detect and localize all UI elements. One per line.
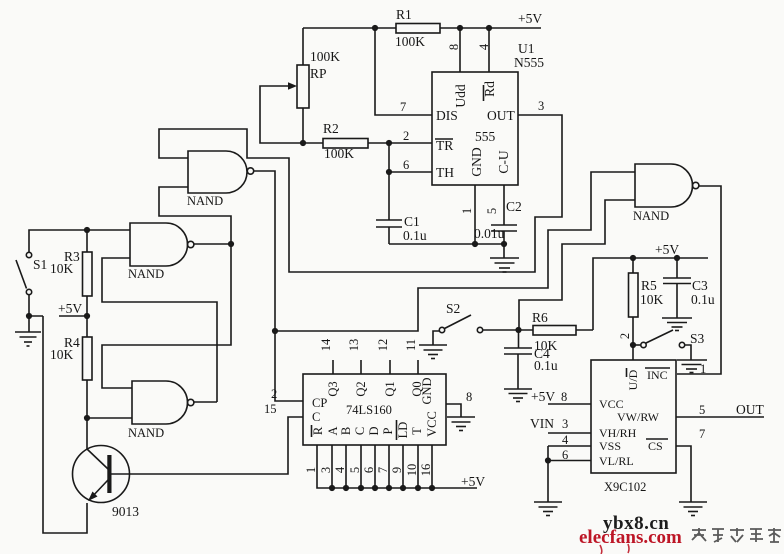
node U1 pin 8 junction	[457, 25, 463, 31]
wire Q1 emitter return	[43, 316, 87, 533]
svg-text:6: 6	[362, 467, 376, 473]
svg-text:S2: S2	[446, 301, 460, 316]
svg-text:100K: 100K	[324, 146, 354, 161]
wire C1/C2 ground bus	[389, 244, 504, 258]
wire U3 pin 11 stub	[417, 360, 419, 374]
node NAND2 output junction	[228, 241, 234, 247]
wire X9C102 VH/RH pin 3	[548, 432, 591, 434]
node TR junction	[386, 140, 392, 146]
wire U3 pin 13 stub	[360, 360, 362, 374]
wire NAND4 output to X9C102 INC	[677, 186, 721, 374]
svg-text:GND: GND	[420, 377, 434, 404]
node TH junction	[386, 169, 392, 175]
wire U3 pin 12 stub	[389, 360, 391, 374]
svg-text:0.01u: 0.01u	[474, 226, 505, 241]
NAND gate U2B	[130, 223, 194, 266]
wire NAND2 output to NAND3 upper input	[102, 244, 231, 388]
svg-text:10K: 10K	[50, 347, 74, 362]
svg-text:CP: CP	[312, 396, 327, 410]
svg-text:NAND: NAND	[187, 194, 223, 208]
svg-text:555: 555	[475, 129, 496, 144]
U4 label INC with overline	[645, 368, 670, 382]
svg-text:100K: 100K	[395, 34, 425, 49]
IC U1 555 body	[432, 72, 518, 185]
switch S1	[16, 252, 32, 294]
resistor R4	[83, 316, 93, 418]
svg-text:9013: 9013	[112, 504, 139, 519]
wire NAND4 lower input from R6 node	[519, 200, 635, 330]
svg-text:2: 2	[403, 129, 409, 143]
transistor Q1 9013	[73, 446, 130, 503]
svg-text:15: 15	[264, 402, 277, 416]
svg-text:3: 3	[319, 467, 333, 473]
U1 label TR with overline	[435, 138, 453, 153]
node R5 bottom / U-D junction	[630, 342, 636, 348]
svg-text:R2: R2	[323, 121, 339, 136]
IC U3 74LS160 body	[303, 374, 446, 445]
ground (C2)	[490, 258, 519, 272]
wire NAND2 lower input from NAND3 output	[102, 258, 217, 402]
svg-text:VL/RL: VL/RL	[599, 454, 634, 468]
node R4 bottom junction	[84, 415, 90, 421]
svg-text:B: B	[339, 427, 353, 435]
svg-text:T: T	[410, 427, 424, 435]
switch S2	[439, 315, 482, 333]
svg-text:+5V: +5V	[531, 389, 555, 404]
wire +5V top rail	[303, 27, 541, 29]
svg-text:8: 8	[561, 390, 567, 404]
wire R4 to Q1 collector	[86, 418, 88, 450]
svg-text:VH/RH: VH/RH	[599, 426, 637, 440]
node RP bottom junction	[300, 140, 306, 146]
svg-text:8: 8	[447, 44, 461, 50]
resistor R3	[83, 230, 93, 316]
wire S1 bottom to ground node	[29, 295, 43, 332]
node S1 ground junction	[26, 313, 32, 319]
svg-text:Udd: Udd	[453, 84, 468, 107]
svg-text:S1: S1	[33, 257, 47, 272]
ground (C3)	[662, 318, 692, 331]
ground (C4)	[504, 389, 532, 402]
resistor R1	[396, 24, 440, 34]
svg-text:VSS: VSS	[599, 439, 621, 453]
svg-text:10: 10	[405, 464, 419, 477]
svg-text:OUT: OUT	[487, 108, 515, 123]
node pin1 junction	[472, 241, 478, 247]
U3 label R with overline	[311, 425, 325, 437]
svg-text:Q1: Q1	[383, 381, 397, 396]
svg-text:U1: U1	[518, 41, 535, 56]
watermark chinese characters	[692, 528, 781, 542]
svg-text:1: 1	[460, 208, 474, 214]
svg-text:NAND: NAND	[128, 267, 164, 281]
wire U1 DIS pin 7	[375, 28, 432, 115]
wire U1 OUT pin 3 to NAND1 input	[159, 115, 562, 272]
svg-text:C3: C3	[692, 278, 708, 293]
potentiometer RP	[260, 28, 309, 143]
U4 label U/D with overline	[626, 368, 640, 390]
svg-text:+5V: +5V	[518, 11, 542, 26]
svg-text:X9C102: X9C102	[604, 480, 646, 494]
wire +5V to R3/R4 junction	[59, 315, 87, 317]
svg-text:6: 6	[562, 448, 568, 462]
svg-text:C-U: C-U	[496, 150, 511, 174]
svg-text:7: 7	[400, 100, 406, 114]
svg-text:R: R	[311, 426, 325, 435]
wire X9C102 VW/RW pin 5 OUT	[676, 416, 764, 418]
svg-text:0.1u: 0.1u	[403, 228, 427, 243]
svg-text:GND: GND	[469, 147, 484, 176]
svg-text:7: 7	[699, 427, 705, 441]
svg-text:+5V: +5V	[58, 301, 82, 316]
svg-text:OUT: OUT	[736, 402, 764, 417]
wire U3 pin 14 stub	[332, 360, 334, 374]
ground (S3)	[677, 360, 707, 373]
svg-text:2: 2	[618, 333, 632, 339]
svg-text:10K: 10K	[640, 292, 664, 307]
switch S3	[636, 330, 685, 348]
svg-text:P: P	[381, 427, 395, 434]
wire S2 left to ground	[433, 331, 439, 345]
U4 label CS with overline	[646, 439, 668, 453]
svg-text:NAND: NAND	[128, 426, 164, 440]
wire U1 TR pin 2	[389, 142, 432, 144]
svg-text:R5: R5	[641, 278, 657, 293]
svg-text:3: 3	[562, 417, 568, 431]
wire U3 pin 8 GND	[446, 404, 461, 417]
svg-text:U/D: U/D	[626, 369, 640, 390]
svg-text:R1: R1	[396, 7, 412, 22]
svg-text:100K: 100K	[310, 49, 340, 64]
capacitor C3	[663, 258, 691, 318]
svg-text:NAND: NAND	[633, 209, 669, 223]
wire U1 pin 4	[488, 28, 490, 72]
svg-text:1: 1	[700, 362, 706, 376]
svg-text:C2: C2	[506, 199, 522, 214]
node U3 rail junctions	[329, 485, 435, 491]
wire R6 to +5V rail	[593, 258, 708, 330]
NAND gate U2C	[132, 381, 194, 424]
svg-text:8: 8	[466, 390, 472, 404]
wire S2 right to R6 node	[483, 329, 519, 331]
svg-text:+5V: +5V	[655, 242, 679, 257]
wire NAND1 output to NAND4 upper input	[275, 172, 635, 331]
capacitor C1	[376, 220, 402, 244]
svg-text:R6: R6	[532, 310, 548, 325]
node R1 left junction	[372, 25, 378, 31]
svg-text:10K: 10K	[50, 261, 74, 276]
svg-text:9: 9	[390, 467, 404, 473]
ground (S2)	[419, 345, 447, 359]
wire S1 top to NAND2 upper input	[29, 230, 130, 252]
svg-text:RP: RP	[310, 66, 327, 81]
svg-text:12: 12	[376, 339, 390, 352]
wire U1 TH pin 6	[389, 171, 432, 173]
wire NAND1 lower input from NAND2 output	[159, 187, 231, 244]
svg-text:D: D	[367, 426, 381, 435]
svg-text:CS: CS	[648, 439, 663, 453]
capacitor C4	[504, 330, 532, 389]
svg-text:0.1u: 0.1u	[691, 292, 715, 307]
wire X9C102 VSS pin 4	[548, 446, 591, 502]
node NAND1 output branch	[272, 328, 278, 334]
node R5 top junction	[630, 255, 636, 261]
svg-text:LD: LD	[396, 422, 410, 439]
svg-text:0.1u: 0.1u	[534, 358, 558, 373]
svg-text:2: 2	[271, 387, 277, 401]
svg-text:TR: TR	[436, 138, 453, 153]
resistor R5	[629, 258, 639, 360]
wire NAND3 output	[194, 401, 217, 403]
wire X9C102 CS pin 7 to ground	[676, 446, 691, 502]
svg-text:6: 6	[403, 158, 409, 172]
node VSS/VL junction	[545, 457, 551, 463]
node R3/R4 +5V junction	[84, 313, 90, 319]
svg-text:13: 13	[347, 339, 361, 352]
svg-text:5: 5	[699, 403, 705, 417]
node C2 junction	[501, 241, 507, 247]
wire U3 bottom pins to +5V rail	[317, 445, 477, 488]
wire X9C102 VCC pin 8	[548, 403, 591, 405]
IC U4 X9C102 body	[591, 360, 676, 473]
wire NAND2 output	[194, 243, 231, 245]
svg-text:C: C	[353, 427, 367, 435]
svg-text:DIS: DIS	[436, 108, 458, 123]
U3 label LD with overline	[396, 420, 410, 440]
ground (U3 pin 8)	[447, 417, 475, 431]
svg-text:+5V: +5V	[461, 474, 485, 489]
svg-text:VIN: VIN	[530, 416, 554, 431]
svg-text:4: 4	[562, 433, 569, 447]
NAND gate U2D	[635, 164, 699, 207]
wire U1 pin 1 GND	[474, 185, 476, 244]
wire U1 pin 5 to C2	[503, 185, 505, 225]
svg-text:VW/RW: VW/RW	[617, 410, 660, 424]
svg-text:14: 14	[319, 338, 333, 351]
svg-text:elecfans.com: elecfans.com	[579, 527, 682, 548]
svg-text:VCC: VCC	[425, 411, 439, 437]
wire R4 to NAND3 lower input	[87, 417, 132, 419]
wire NAND1 output to 74LS160 CP	[254, 171, 303, 401]
svg-text:11: 11	[404, 339, 418, 351]
svg-text:N555: N555	[514, 55, 544, 70]
svg-text:16: 16	[419, 464, 433, 477]
resistor R2	[303, 139, 389, 149]
U1 label Rd with overline	[482, 81, 497, 101]
capacitor C2	[491, 225, 517, 244]
svg-text:74LS160: 74LS160	[346, 403, 392, 417]
svg-text:C: C	[312, 410, 320, 424]
svg-text:VCC: VCC	[599, 397, 624, 411]
node R6/C4/S2 junction	[515, 327, 521, 333]
svg-text:C1: C1	[404, 214, 420, 229]
watermark red flourish	[600, 544, 629, 554]
wire X9C102 VL/RL pin 6	[548, 460, 591, 462]
node C3 top junction	[674, 255, 680, 261]
svg-text:4: 4	[333, 466, 347, 473]
svg-text:A: A	[326, 426, 340, 435]
svg-text:7: 7	[376, 467, 390, 473]
svg-text:Q3: Q3	[326, 381, 340, 396]
svg-text:5: 5	[348, 467, 362, 473]
svg-text:INC: INC	[647, 368, 668, 382]
ground (CS)	[679, 502, 707, 516]
node R3 top junction	[84, 227, 90, 233]
NAND gate U2A	[188, 151, 254, 193]
svg-text:TH: TH	[436, 165, 454, 180]
wire Q1 base to 74LS160 pin C	[112, 417, 304, 474]
wire R2 to C1	[388, 143, 390, 220]
svg-text:1: 1	[304, 467, 318, 473]
svg-text:4: 4	[477, 43, 491, 50]
svg-text:Q2: Q2	[354, 381, 368, 396]
svg-text:3: 3	[538, 99, 544, 113]
wire U1 pin 8	[459, 28, 461, 72]
ground (S1)	[15, 332, 41, 346]
resistor R6	[519, 326, 594, 336]
wire S3 right to ground	[685, 345, 691, 360]
svg-text:S3: S3	[690, 331, 705, 346]
node U1 pin 4 junction	[486, 25, 492, 31]
svg-text:5: 5	[485, 208, 499, 214]
ground (VSS)	[534, 502, 562, 516]
